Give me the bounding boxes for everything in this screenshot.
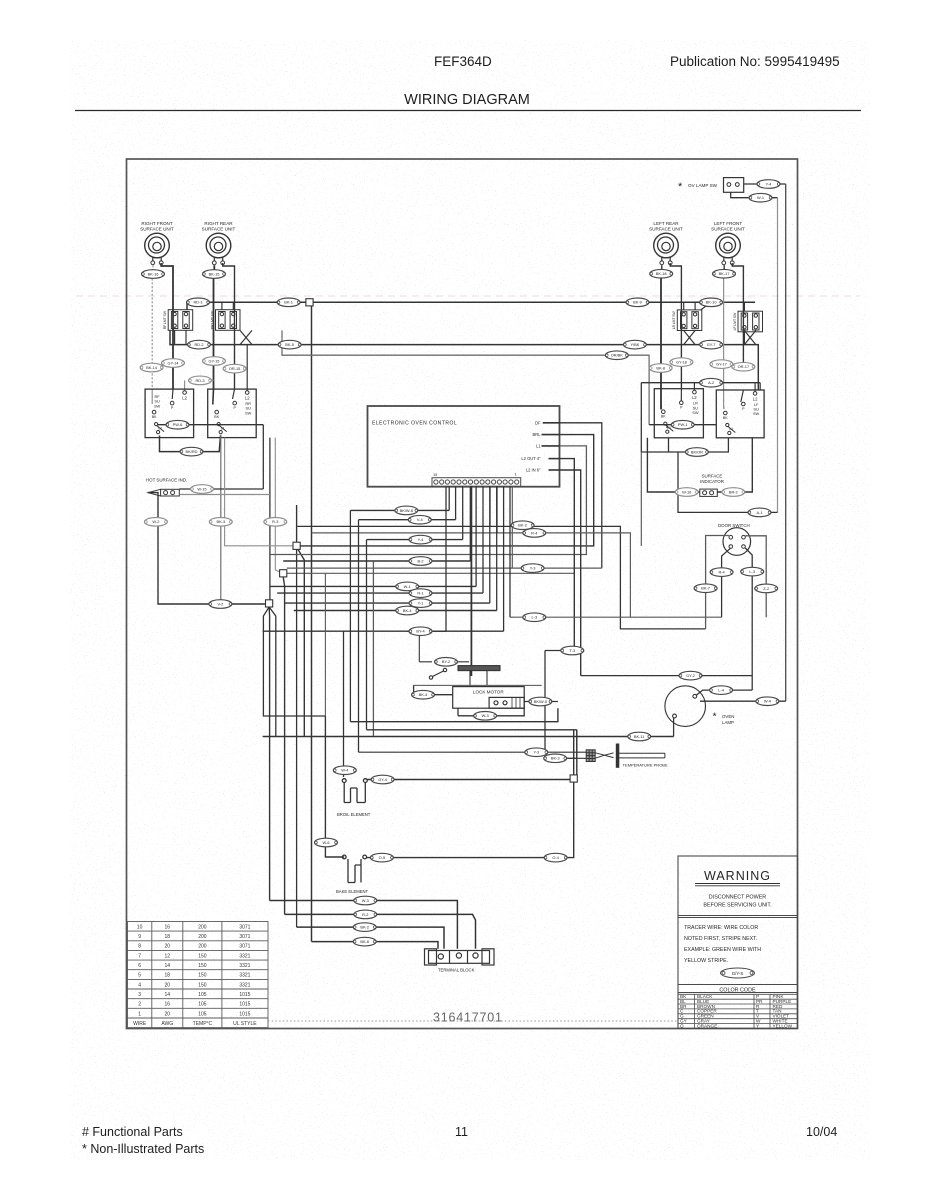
wire LR right feed xyxy=(670,263,681,389)
wire strip drop to BK-2 run xyxy=(489,486,491,526)
wire fan B-2 drop xyxy=(469,486,471,561)
door switch xyxy=(718,523,751,555)
svg-text:DF: DF xyxy=(535,420,541,425)
wire A-1 row xyxy=(678,452,778,512)
svg-text:1015: 1015 xyxy=(239,1011,250,1017)
svg-text:TEMP°C: TEMP°C xyxy=(193,1021,213,1027)
svg-text:BK-9: BK-9 xyxy=(633,300,642,305)
svg-text:L1: L1 xyxy=(729,427,733,431)
wire stub L2 box1 xyxy=(184,380,186,390)
wire stub LF-BK into boxR xyxy=(723,406,725,409)
wire BK/RD loop xyxy=(160,436,221,452)
wire L1 top bus xyxy=(187,302,755,309)
connector Y-4 xyxy=(757,180,780,189)
wire bundle gray drop xyxy=(324,573,326,716)
connector BK-10 xyxy=(700,298,723,307)
svg-text:COLOR CODE: COLOR CODE xyxy=(719,988,756,994)
svg-text:A-2: A-2 xyxy=(708,380,714,385)
svg-text:RD-1: RD-1 xyxy=(193,300,202,305)
svg-text:DOOR SWITCH: DOOR SWITCH xyxy=(718,523,750,528)
svg-text:3: 3 xyxy=(138,992,141,998)
svg-text:BRL: BRL xyxy=(533,432,542,437)
wire BK-2 to terminal block xyxy=(297,927,444,949)
connector R-3 xyxy=(264,518,287,527)
connector BK-3 xyxy=(209,518,232,527)
svg-text:LR LMT SW: LR LMT SW xyxy=(672,311,676,330)
wire lower bus 1 xyxy=(350,708,558,722)
svg-text:OR-17: OR-17 xyxy=(738,364,749,369)
connector W-4 xyxy=(333,766,356,775)
connector W-1 xyxy=(749,193,772,202)
indicator HOT SURFACE IND xyxy=(146,478,187,497)
svg-text:BK-16: BK-16 xyxy=(148,271,159,276)
wire lamp bottom xyxy=(673,718,675,737)
connector L-3 xyxy=(741,567,764,576)
wire drop from junction C3 xyxy=(263,607,325,716)
svg-text:L2 OUT 4″: L2 OUT 4″ xyxy=(521,456,541,461)
svg-text:RF LMT SW: RF LMT SW xyxy=(163,310,167,329)
wire fan BK/W-8 xyxy=(350,509,449,511)
wire lock motor left up xyxy=(413,685,415,694)
connector BK-1 xyxy=(277,298,300,307)
connector RD-1 xyxy=(187,298,210,307)
wire lock motor left xyxy=(414,694,453,696)
svg-text:HOT SURFACE IND.: HOT SURFACE IND. xyxy=(146,478,187,483)
svg-text:150: 150 xyxy=(198,963,207,969)
connector BK-15 xyxy=(203,270,226,279)
svg-text:4: 4 xyxy=(138,982,141,988)
svg-text:LAMP: LAMP xyxy=(722,720,734,725)
svg-text:SW: SW xyxy=(692,410,699,415)
surface unit LR xyxy=(649,221,683,265)
svg-text:GY-17: GY-17 xyxy=(716,362,727,367)
svg-text:GY-15: GY-15 xyxy=(209,358,220,363)
svg-text:BK-2: BK-2 xyxy=(518,523,527,528)
terminal block xyxy=(425,949,495,973)
svg-text:14: 14 xyxy=(165,992,171,998)
wire broil right run xyxy=(367,779,574,781)
svg-text:W-16: W-16 xyxy=(682,489,691,494)
diagram border xyxy=(127,159,798,1029)
svg-text:ELECTRONIC OVEN CONTROL: ELECTRONIC OVEN CONTROL xyxy=(372,421,457,427)
wire surface indicator right xyxy=(717,438,752,492)
svg-text:W-3: W-3 xyxy=(362,898,369,903)
wire drop from junction C2 xyxy=(269,607,276,737)
junction top bus xyxy=(306,299,313,306)
wire fan W-1 drop xyxy=(475,486,477,586)
wire stub RF-BK into box1 xyxy=(151,389,153,404)
svg-text:LEFT REAR: LEFT REAR xyxy=(653,221,679,226)
wire stub sw2 top xyxy=(221,302,223,309)
lock motor box xyxy=(453,687,525,709)
surface unit RR xyxy=(202,221,236,265)
svg-text:A-1: A-1 xyxy=(756,510,762,515)
svg-text:Publication No: 5995419495: Publication No: 5995419495 xyxy=(670,54,840,69)
svg-text:LF LMT SW: LF LMT SW xyxy=(733,312,737,330)
connector W-3 xyxy=(474,712,497,721)
connector V-2 xyxy=(209,600,232,609)
wire stub swL1 topb xyxy=(694,302,696,310)
svg-text:O-5: O-5 xyxy=(379,855,386,860)
wire fan BK/W-8 drop xyxy=(448,486,450,510)
wire lower bus 3 lamp xyxy=(263,736,674,738)
svg-text:BK/RD: BK/RD xyxy=(186,449,198,454)
svg-text:20: 20 xyxy=(165,944,171,950)
wire ov lamp sw to Y-4 xyxy=(744,183,786,185)
svg-text:W-3: W-3 xyxy=(482,713,489,718)
svg-text:18: 18 xyxy=(165,934,171,940)
svg-text:GY-14: GY-14 xyxy=(168,360,180,365)
svg-text:L1: L1 xyxy=(221,426,225,430)
svg-text:BK-1: BK-1 xyxy=(284,300,293,305)
svg-text:11: 11 xyxy=(455,1125,468,1139)
scan artifact line xyxy=(76,295,860,297)
svg-text:8: 8 xyxy=(138,944,141,950)
wire GY-2 run xyxy=(581,675,753,677)
svg-text:L2: L2 xyxy=(692,395,697,400)
svg-text:W-2: W-2 xyxy=(152,519,159,524)
svg-text:TERMINAL BLOCK: TERMINAL BLOCK xyxy=(438,968,475,973)
svg-text:W-1: W-1 xyxy=(404,584,411,589)
wire to bake left xyxy=(325,716,344,857)
svg-text:105: 105 xyxy=(198,1011,207,1017)
connector RD-2 xyxy=(188,340,211,349)
svg-text:L-3: L-3 xyxy=(531,615,537,620)
svg-text:Z-2: Z-2 xyxy=(763,586,769,591)
svg-text:TRACER WIRE: WIRE COLOR: TRACER WIRE: WIRE COLOR xyxy=(684,925,758,931)
connector BK-18 xyxy=(650,269,673,278)
surface unit LF xyxy=(711,221,745,265)
connector W-2 xyxy=(144,518,167,527)
svg-text:L1: L1 xyxy=(158,426,162,430)
svg-text:16: 16 xyxy=(165,1002,171,1008)
svg-text:Y-1: Y-1 xyxy=(418,601,424,606)
wire strip drop Y-3 xyxy=(511,486,513,568)
svg-text:W-4: W-4 xyxy=(341,768,349,773)
wire diag swL1 bottom cross xyxy=(684,331,695,345)
svg-text:INDICATOR: INDICATOR xyxy=(700,479,724,484)
wire stub RF-P into box1 xyxy=(171,389,174,399)
wire L-3 run xyxy=(510,616,722,618)
tracer wire note xyxy=(684,925,761,964)
svg-text:W-4: W-4 xyxy=(764,699,772,704)
wire indicator right top xyxy=(179,488,263,490)
svg-text:LEFT FRONT: LEFT FRONT xyxy=(714,221,742,226)
wire stub RR-BK into box2 xyxy=(212,389,215,404)
svg-text:200: 200 xyxy=(198,934,207,940)
svg-text:L-3: L-3 xyxy=(749,569,755,574)
wire strip drop R-4 xyxy=(496,486,498,533)
wire stub boxR top xyxy=(759,383,761,390)
switch LF LIMIT SW xyxy=(733,311,763,332)
svg-text:150: 150 xyxy=(198,973,207,979)
svg-text:1: 1 xyxy=(515,473,517,477)
connector Y-4 xyxy=(409,535,432,544)
svg-text:# Functional Parts: # Functional Parts xyxy=(82,1125,183,1139)
svg-text:BK/W-8: BK/W-8 xyxy=(400,508,413,513)
svg-text:15: 15 xyxy=(433,473,437,477)
svg-text:W-15: W-15 xyxy=(197,486,206,491)
svg-text:Y-3: Y-3 xyxy=(533,750,539,755)
wire W-3 to terminal block xyxy=(270,901,458,949)
svg-text:3071: 3071 xyxy=(239,934,250,940)
svg-text:RD-3: RD-3 xyxy=(195,378,204,383)
wire fan V-4 drop xyxy=(455,486,457,519)
oven lamp xyxy=(665,686,735,727)
wire door switch tr xyxy=(745,536,766,617)
switch RF LIMIT SW xyxy=(163,310,193,331)
connector L-4 xyxy=(710,686,733,695)
svg-text:BK: BK xyxy=(723,416,728,420)
junction B xyxy=(280,570,287,577)
connector OR-15 xyxy=(223,364,246,373)
wire junction B to L2 OUT drop xyxy=(287,572,575,574)
svg-text:UL STYLE: UL STYLE xyxy=(233,1021,257,1027)
wire L2 IN xyxy=(560,470,581,676)
svg-text:SURFACE UNIT: SURFACE UNIT xyxy=(711,227,745,232)
svg-text:105: 105 xyxy=(198,1002,207,1008)
svg-text:12: 12 xyxy=(165,953,171,959)
wire strip drop L-3 xyxy=(509,486,511,617)
wire strip drop BY xyxy=(445,486,447,631)
wire T-3 drop xyxy=(544,651,546,759)
svg-text:BK: BK xyxy=(661,415,666,419)
wire diag swL2 cross xyxy=(744,331,755,345)
svg-text:GY-4: GY-4 xyxy=(378,777,388,782)
connector Y-3 xyxy=(521,564,544,573)
connector W-15 xyxy=(191,485,214,494)
svg-text:L1: L1 xyxy=(667,426,671,430)
surface unit RF xyxy=(140,221,174,265)
svg-text:FEF364D: FEF364D xyxy=(434,54,492,69)
wire T-3 tail xyxy=(545,650,574,652)
svg-text:WARNING: WARNING xyxy=(704,869,771,883)
svg-text:10: 10 xyxy=(137,924,143,930)
svg-text:R-3: R-3 xyxy=(272,519,278,524)
connector BY-2 xyxy=(435,658,458,667)
svg-text:SW: SW xyxy=(245,410,252,415)
wire fan Y-4 xyxy=(367,539,463,541)
wire bundle v1 xyxy=(349,510,351,721)
connector Y-3 xyxy=(525,748,548,757)
svg-text:1015: 1015 xyxy=(239,1002,250,1008)
svg-text:RD-2: RD-2 xyxy=(194,342,203,347)
svg-text:WIRE: WIRE xyxy=(133,1021,147,1027)
wire LF left feed xyxy=(723,278,725,409)
wire fan BK-4 xyxy=(294,610,497,612)
svg-text:200: 200 xyxy=(198,944,207,950)
wire drop junction A second xyxy=(296,550,298,927)
wire door switch bl xyxy=(722,548,731,617)
connector Y-1 xyxy=(409,599,432,608)
svg-text:L2: L2 xyxy=(753,397,758,402)
svg-text:Y-3: Y-3 xyxy=(530,566,536,571)
wire fan R-1 drop xyxy=(482,486,484,593)
svg-text:BR-2: BR-2 xyxy=(729,489,738,494)
wire door switch br xyxy=(745,548,752,690)
svg-text:T-3: T-3 xyxy=(569,648,575,653)
connector GY-15 xyxy=(203,357,226,366)
wire diag swL2 xyxy=(744,331,755,345)
svg-text:L1: L1 xyxy=(536,444,541,449)
wire RR right feed xyxy=(223,263,235,389)
svg-text:BK-18: BK-18 xyxy=(656,271,667,276)
svg-text:BK: BK xyxy=(214,415,219,419)
switch LF SU SW xyxy=(716,390,764,438)
wire lower bus 2 xyxy=(367,729,577,731)
svg-text:BK-6: BK-6 xyxy=(360,939,369,944)
connector G/Y-S example xyxy=(721,968,755,978)
svg-text:OR-15: OR-15 xyxy=(229,366,240,371)
wire box2 gray drop to junction A xyxy=(225,438,293,546)
connector GY-2 xyxy=(679,671,702,680)
wire stub swL1 top xyxy=(683,302,685,310)
connector W-1 xyxy=(396,582,419,591)
svg-text:W-6: W-6 xyxy=(322,840,329,845)
wire box1 drop gray xyxy=(275,438,283,574)
wire LR left stub xyxy=(661,265,663,270)
wire diag swL1 bottom xyxy=(684,331,695,345)
wire LF left stub xyxy=(723,265,725,270)
svg-text:O: O xyxy=(680,1023,684,1028)
wire boxL bottom drop xyxy=(668,438,670,452)
wire R-2 to terminal block xyxy=(285,914,476,948)
wire ov lamp sw to W-1 xyxy=(731,192,778,197)
svg-text:BK-15: BK-15 xyxy=(209,271,220,276)
lock motor assembly xyxy=(407,631,542,685)
svg-text:BK-3: BK-3 xyxy=(216,519,225,524)
connector GY-17 xyxy=(710,360,733,369)
switch LR SU SW xyxy=(654,389,703,438)
connector BK-11 xyxy=(628,732,651,741)
svg-text:DISCONNECT POWER: DISCONNECT POWER xyxy=(709,895,767,901)
wire box2 drop to indicator xyxy=(262,425,264,489)
wire RR left feed xyxy=(213,265,216,389)
connector BK/W-5 xyxy=(529,697,552,706)
wire junction D up xyxy=(573,730,575,775)
wire box2 drop long xyxy=(269,438,271,604)
connector A-1 xyxy=(748,508,771,517)
wire junction A top feed xyxy=(296,505,298,542)
wire drop from junction C xyxy=(268,607,271,901)
svg-text:BK-10: BK-10 xyxy=(706,300,718,305)
wire boxL contact stub xyxy=(666,425,668,428)
connector BK-4 xyxy=(396,606,419,615)
connector BK-4 xyxy=(412,690,435,699)
svg-text:V-2: V-2 xyxy=(217,601,223,606)
connector GY-7 xyxy=(700,340,723,349)
svg-text:TEMPERATURE PROBE: TEMPERATURE PROBE xyxy=(623,763,668,768)
svg-text:BK-4: BK-4 xyxy=(419,692,428,697)
wire box2 L1 drop xyxy=(220,435,222,604)
wire fan R-1 xyxy=(277,592,483,594)
svg-text:SURFACE UNIT: SURFACE UNIT xyxy=(140,227,174,232)
wire RF left feed xyxy=(151,265,154,389)
connector BK/RD xyxy=(180,447,203,456)
wire bundle v3 xyxy=(366,540,368,730)
wire door switch tl xyxy=(706,536,729,629)
wire fan Y-1 drop xyxy=(489,486,491,603)
svg-text:OV LAMP SW: OV LAMP SW xyxy=(688,183,718,188)
connector W-3 xyxy=(354,896,377,905)
temperature probe xyxy=(586,744,668,768)
connector BK-14 xyxy=(140,363,163,372)
switch RR LIMIT SW xyxy=(210,310,240,331)
svg-text:GY-18: GY-18 xyxy=(676,360,687,365)
svg-text:WIRING DIAGRAM: WIRING DIAGRAM xyxy=(404,92,530,108)
svg-text:150: 150 xyxy=(198,953,207,959)
svg-text:R-4: R-4 xyxy=(531,530,538,535)
svg-text:PW-6: PW-6 xyxy=(173,422,183,427)
svg-text:O-4: O-4 xyxy=(552,855,559,860)
svg-text:9: 9 xyxy=(138,934,141,940)
svg-text:L-4: L-4 xyxy=(718,688,724,693)
connector GY-18 xyxy=(670,358,693,367)
connector R-2 xyxy=(354,910,377,919)
wire fan BY-4 drop xyxy=(503,486,505,631)
svg-text:316417701: 316417701 xyxy=(433,1011,503,1025)
connector OR/BK xyxy=(605,351,628,360)
wire Y-3 row xyxy=(287,567,602,569)
junction A xyxy=(293,542,300,549)
svg-text:W-1: W-1 xyxy=(757,195,764,200)
wire stub sw1b xyxy=(185,330,187,344)
connector RD-3 xyxy=(189,376,212,385)
wire fan BY-4 xyxy=(263,630,504,632)
svg-text:YELLOW STRIPE.: YELLOW STRIPE. xyxy=(684,958,728,964)
svg-text:NOTED FIRST, STRIPE NEXT.: NOTED FIRST, STRIPE NEXT. xyxy=(684,936,757,942)
wire bundle v2 xyxy=(358,520,360,753)
svg-text:YELLOW: YELLOW xyxy=(773,1023,793,1028)
svg-text:PW-1: PW-1 xyxy=(678,422,688,427)
svg-text:3321: 3321 xyxy=(239,963,250,969)
svg-text:SURFACE UNIT: SURFACE UNIT xyxy=(202,227,236,232)
wire to surface indicator xyxy=(647,438,699,492)
connector W-4 xyxy=(756,697,779,706)
connector O-5 xyxy=(370,853,393,862)
connector PW-6 xyxy=(166,420,189,429)
svg-text:3071: 3071 xyxy=(239,944,250,950)
wire gauge table xyxy=(128,922,269,1028)
wire lock motor right xyxy=(524,701,558,703)
wire lower bus 4 link xyxy=(545,730,577,759)
wire right-side vertical gray xyxy=(777,198,779,513)
wire fan Y-1 xyxy=(285,602,490,604)
svg-text:3321: 3321 xyxy=(239,982,250,988)
svg-text:R-4: R-4 xyxy=(718,570,725,575)
wire R-4 run xyxy=(312,533,631,617)
wire L2 OUT xyxy=(560,459,575,651)
wire stub RR-P into box2 xyxy=(233,389,235,399)
svg-text:20: 20 xyxy=(165,1011,171,1017)
connector BK-7 xyxy=(694,584,717,593)
svg-text:EXAMPLE: GREEN WIRE WITH: EXAMPLE: GREEN WIRE WITH xyxy=(684,947,761,953)
connector GY-4 xyxy=(371,775,394,784)
svg-text:BK/W-5: BK/W-5 xyxy=(534,699,547,704)
connector Y/BK xyxy=(623,340,646,349)
title underline xyxy=(75,110,861,112)
svg-text:BY-2: BY-2 xyxy=(442,659,450,664)
terminal strip of oven control xyxy=(432,473,521,487)
wire PW-1 to right switch xyxy=(649,424,716,426)
wire fan W-1 xyxy=(270,585,476,587)
wire probe feed BK-3 xyxy=(545,757,586,759)
wire lamp right W-4 xyxy=(700,700,786,702)
color code table xyxy=(678,985,798,995)
switch RF SU SW xyxy=(145,389,194,438)
connector BR-2 xyxy=(722,488,745,497)
connector BK-6 xyxy=(353,937,376,946)
